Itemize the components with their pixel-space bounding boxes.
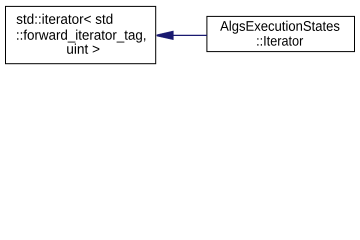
left label line 2: ::forward_iterator_tag, xyxy=(17,30,145,43)
left label line 1: std::iterator< std xyxy=(17,14,113,24)
left label line 3: uint > xyxy=(67,44,99,54)
inheritance arrow head pointing left xyxy=(157,31,174,40)
node box: std::iterator base class xyxy=(6,6,156,63)
inheritance arrow shaft (midnight blue) xyxy=(173,34,207,36)
right label line 2: ::Iterator xyxy=(257,36,303,46)
right label line 1: AlgsExecutionStates xyxy=(220,21,339,34)
node box: AlgsExecutionStates::Iterator derived class xyxy=(207,16,355,51)
